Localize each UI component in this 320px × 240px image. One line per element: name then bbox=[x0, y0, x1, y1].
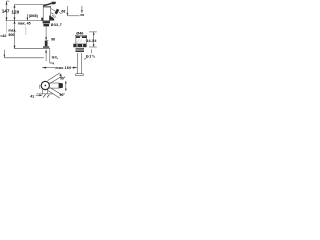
svg-text:max.160: max.160 bbox=[55, 66, 71, 70]
svg-text:(Ø45): (Ø45) bbox=[29, 14, 38, 18]
svg-text:Ø6: Ø6 bbox=[80, 13, 84, 17]
svg-text:Ø46: Ø46 bbox=[76, 31, 83, 35]
svg-text:300: 300 bbox=[8, 33, 14, 37]
svg-text:68: 68 bbox=[61, 10, 65, 14]
svg-text:max.: max. bbox=[8, 29, 16, 33]
svg-text:147: 147 bbox=[2, 9, 10, 14]
svg-text:120: 120 bbox=[11, 10, 19, 15]
svg-text:G⅜: G⅜ bbox=[52, 55, 59, 59]
svg-text:max. 45: max. 45 bbox=[18, 21, 31, 25]
svg-text:90: 90 bbox=[51, 37, 55, 41]
svg-text:50°: 50° bbox=[60, 76, 66, 80]
svg-text:41: 41 bbox=[30, 94, 34, 98]
svg-text:G1¼: G1¼ bbox=[86, 55, 96, 59]
svg-text:34-54: 34-54 bbox=[86, 39, 97, 43]
svg-text:50°: 50° bbox=[60, 93, 66, 97]
svg-text:Ø33,7: Ø33,7 bbox=[51, 23, 62, 27]
svg-text:≈42: ≈42 bbox=[0, 34, 6, 38]
